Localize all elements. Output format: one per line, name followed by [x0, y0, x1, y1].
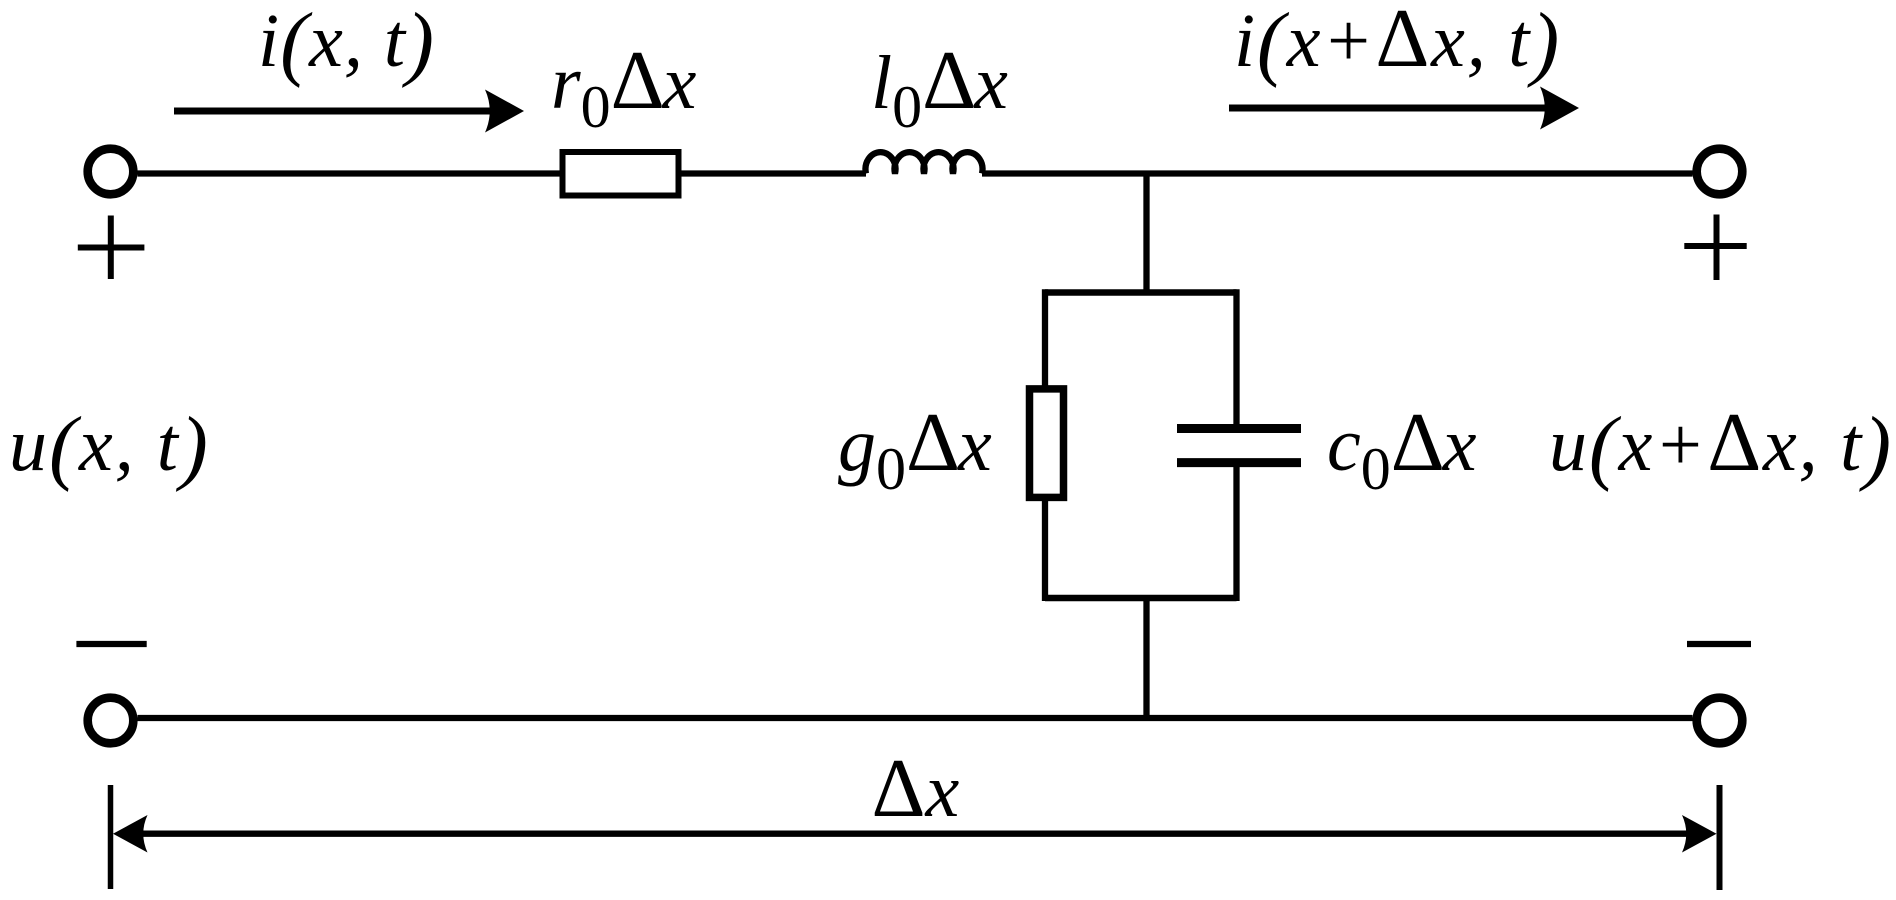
terminal circle top-left — [88, 149, 134, 195]
wire left branch upper — [1042, 289, 1048, 388]
terminal circle top-right — [1697, 149, 1743, 195]
wire inductor to right terminal — [982, 170, 1693, 176]
shunt box top wire — [1045, 289, 1237, 296]
wire right branch lower — [1233, 467, 1239, 601]
resistor r0dx body — [563, 152, 679, 196]
capacitor c0dx bottom plate — [1177, 458, 1301, 467]
current arrow i(x+dx,t) head — [1540, 87, 1579, 130]
dimension arrowhead left — [113, 815, 148, 853]
svg-text:u(x, t): u(x, t) — [9, 400, 210, 493]
resistor g0dx body — [1030, 389, 1064, 498]
svg-text:l0Δx: l0Δx — [871, 34, 1008, 140]
wire shunt branch to bottom rail — [1143, 598, 1149, 718]
dimension line shaft — [125, 831, 1705, 837]
terminal circle bottom-left — [88, 698, 134, 744]
shunt box bottom wire — [1045, 595, 1237, 602]
svg-text:g0Δx: g0Δx — [838, 396, 992, 502]
wire bottom rail — [138, 715, 1693, 721]
svg-text:i(x, t): i(x, t) — [258, 0, 435, 89]
terminal circle bottom-right — [1697, 698, 1743, 744]
capacitor c0dx top plate — [1177, 424, 1301, 433]
wire left branch lower — [1042, 497, 1048, 601]
current arrow i(x,t) head — [485, 90, 524, 133]
wire top left segment — [138, 170, 563, 176]
wire resistor to inductor — [682, 170, 867, 176]
svg-text:c0Δx: c0Δx — [1327, 396, 1477, 502]
current arrow i(x,t) shaft — [174, 108, 495, 115]
node junction vertical wire to shunt branch — [1143, 174, 1149, 293]
svg-text:Δx: Δx — [872, 742, 960, 835]
dimension tick left — [108, 785, 114, 889]
dimension arrowhead right — [1682, 815, 1717, 853]
minus sign right — [1687, 641, 1751, 647]
dimension tick right — [1717, 785, 1723, 890]
plus sign left — [78, 216, 145, 280]
plus sign right — [1684, 215, 1746, 281]
svg-text:u(x+Δx, t): u(x+Δx, t) — [1549, 396, 1893, 493]
svg-text:i(x+Δx, t): i(x+Δx, t) — [1234, 0, 1561, 89]
wire right branch upper — [1233, 289, 1239, 424]
inductor l0dx coil — [865, 152, 982, 173]
current arrow i(x+dx,t) shaft — [1229, 105, 1550, 112]
minus sign left — [76, 641, 146, 647]
svg-text:r0Δx: r0Δx — [551, 34, 697, 140]
